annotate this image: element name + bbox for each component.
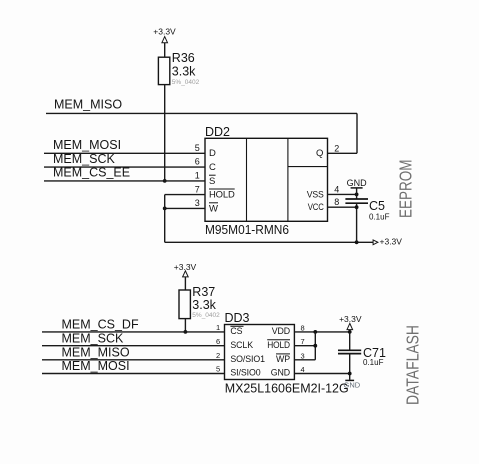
svg-text:M95M01-RMN6: M95M01-RMN6 [205, 223, 289, 237]
svg-text:0.1uF: 0.1uF [369, 213, 390, 222]
wire VCC pin 8 stub [328, 206, 357, 208]
svg-text:5: 5 [216, 365, 220, 374]
wire pin 2 stub (Q output) [328, 152, 358, 154]
svg-text:HOLD: HOLD [209, 190, 235, 201]
svg-text:8: 8 [334, 197, 339, 207]
svg-text:MEM_MOSI: MEM_MOSI [62, 359, 130, 373]
wire MEM_MISO to pin 2 [42, 359, 225, 361]
wire tie vertical pins 8-7-3 [314, 332, 316, 360]
svg-text:W: W [209, 203, 218, 214]
wire VDD pin 8 to +3.3V / C71 [294, 331, 349, 333]
wire HOLD pin 7 stub [165, 194, 205, 196]
svg-text:5: 5 [195, 143, 200, 153]
svg-text:8: 8 [301, 323, 305, 332]
pin label HOLD with overline [209, 189, 235, 201]
svg-text:7: 7 [301, 337, 305, 346]
wire MEM_MOSI to pin 5 [42, 373, 225, 375]
junction R36 / MEM_CS_EE [163, 179, 167, 183]
svg-text:HOLD: HOLD [267, 340, 290, 350]
DD2 internal divider left [246, 138, 248, 221]
power +3.3V symbol (feeds R37) [174, 262, 197, 277]
wire MEM_MOSI to pin 5 [44, 152, 205, 154]
svg-text:3: 3 [195, 198, 200, 208]
svg-text:VDD: VDD [272, 326, 290, 336]
svg-text:MEM_MOSI: MEM_MOSI [53, 138, 121, 152]
svg-text:MEM_CS_EE: MEM_CS_EE [53, 166, 130, 180]
power +3.3V arrow (right, EEPROM rail) [373, 236, 402, 246]
svg-text:5%_0402: 5%_0402 [192, 312, 220, 319]
svg-text:7: 7 [195, 184, 200, 194]
power +3.3V arrow (up, DATAFLASH) [339, 314, 362, 332]
svg-text:R36: R36 [172, 51, 195, 65]
svg-text:GND: GND [344, 381, 361, 390]
svg-text:6: 6 [195, 157, 200, 167]
wire W pin 3 stub [165, 207, 205, 209]
resistor R37 [179, 290, 190, 319]
svg-text:2: 2 [334, 143, 339, 153]
svg-text:DD2: DD2 [205, 125, 230, 139]
wire MEM_SCK to pin 6 [44, 166, 205, 168]
wire +3.3V to R36 top [164, 43, 166, 58]
ground GND symbol (DATAFLASH) [344, 380, 361, 389]
wire MEM_MISO vertical to pin 2 [356, 113, 358, 153]
wire HOLD pin 7 stub (DD3) [294, 345, 315, 347]
svg-text:SCLK: SCLK [230, 340, 253, 350]
pin label WP with overline [276, 354, 290, 364]
junction VCC / C5 [355, 205, 359, 209]
svg-text:DATAFLASH: DATAFLASH [403, 325, 423, 405]
wire +3.3V rail (bottom of EEPROM section) [165, 241, 373, 243]
junction VSS / GND stem [355, 193, 359, 197]
svg-text:S: S [209, 176, 215, 187]
svg-text:C5: C5 [369, 199, 385, 213]
IC DD2 outline [205, 138, 328, 221]
wire R36 bottom to MEM_CS_EE net [164, 85, 166, 181]
pin label W with overline [209, 203, 218, 215]
power +3.3V symbol (top, feeds R36) [153, 27, 176, 43]
junction pin 3 / vertical [163, 207, 167, 211]
svg-text:C: C [209, 162, 216, 173]
wire MEM_CS_DF to pin 1 [42, 331, 225, 333]
svg-text:MEM_SCK: MEM_SCK [62, 331, 124, 345]
svg-text:0.1uF: 0.1uF [363, 358, 384, 367]
junction pin 7 / tie vertical [313, 344, 317, 348]
svg-text:MX25L1606EM2I-12G: MX25L1606EM2I-12G [225, 382, 349, 396]
svg-text:3.3k: 3.3k [172, 65, 196, 79]
svg-text:5%_0402: 5%_0402 [172, 79, 200, 86]
svg-text:SI/SIO0: SI/SIO0 [230, 367, 260, 377]
svg-text:+3.3V: +3.3V [380, 236, 403, 246]
wire MEM_CS_EE to pin 1 [44, 180, 205, 182]
svg-text:4: 4 [334, 184, 339, 194]
svg-text:+3.3V: +3.3V [153, 27, 176, 37]
wire +3.3V to R37 top [184, 277, 186, 290]
junction pin 4 / C71 [348, 372, 352, 376]
pin label CS with overline [230, 326, 243, 336]
capacitor C71 [338, 332, 361, 380]
svg-text:MEM_SCK: MEM_SCK [53, 152, 115, 166]
svg-text:+3.3V: +3.3V [339, 314, 362, 324]
DD2 internal divider right [287, 138, 289, 221]
wire GND pin 4 stub [294, 373, 349, 375]
wire MEM_MISO horizontal [46, 112, 357, 114]
svg-text:VSS: VSS [307, 189, 324, 200]
svg-text:1: 1 [195, 171, 200, 181]
junction pin 8 / tie vertical [313, 330, 317, 334]
svg-text:DD3: DD3 [225, 311, 250, 325]
pin label S with overline [209, 175, 216, 187]
svg-text:3.3k: 3.3k [192, 298, 216, 312]
svg-text:R37: R37 [192, 285, 215, 299]
svg-text:GND: GND [347, 178, 368, 188]
wire MEM_SCK to pin 6 [42, 345, 225, 347]
svg-text:MEM_CS_DF: MEM_CS_DF [62, 318, 139, 332]
svg-text:GND: GND [271, 367, 290, 377]
ground GND symbol (EEPROM) [347, 178, 368, 199]
svg-text:VCC: VCC [308, 202, 324, 213]
wire WP pin 3 stub [294, 359, 315, 361]
svg-text:6: 6 [216, 337, 220, 346]
IC DD3 outline [225, 325, 295, 380]
junction C5 / rail [355, 240, 359, 244]
wire pins 7,3 down to +3.3V rail [164, 195, 166, 243]
junction VDD rail / C71 [348, 330, 352, 334]
svg-text:MEM_MISO: MEM_MISO [62, 345, 130, 359]
pin label HOLD with overline (DD3) [267, 340, 290, 350]
junction R37 / MEM_CS_DF [184, 330, 188, 334]
svg-text:2: 2 [216, 351, 220, 360]
svg-text:MEM_MISO: MEM_MISO [54, 97, 122, 111]
wire R37 bottom to MEM_CS_DF net [184, 319, 186, 332]
wire VSS pin 4 stub [328, 193, 357, 195]
svg-text:3: 3 [301, 351, 305, 360]
svg-text:SO/SIO1: SO/SIO1 [230, 354, 265, 364]
svg-text:WP: WP [276, 354, 290, 364]
svg-text:Q: Q [316, 148, 323, 159]
svg-text:4: 4 [301, 365, 305, 374]
svg-text:1: 1 [216, 323, 220, 332]
svg-text:EEPROM: EEPROM [396, 160, 416, 219]
resistor R36 [158, 57, 169, 84]
svg-text:CS: CS [230, 326, 242, 336]
capacitor C5 [345, 199, 368, 242]
DD2 internal divider under Q [288, 166, 328, 168]
svg-text:D: D [209, 148, 216, 159]
